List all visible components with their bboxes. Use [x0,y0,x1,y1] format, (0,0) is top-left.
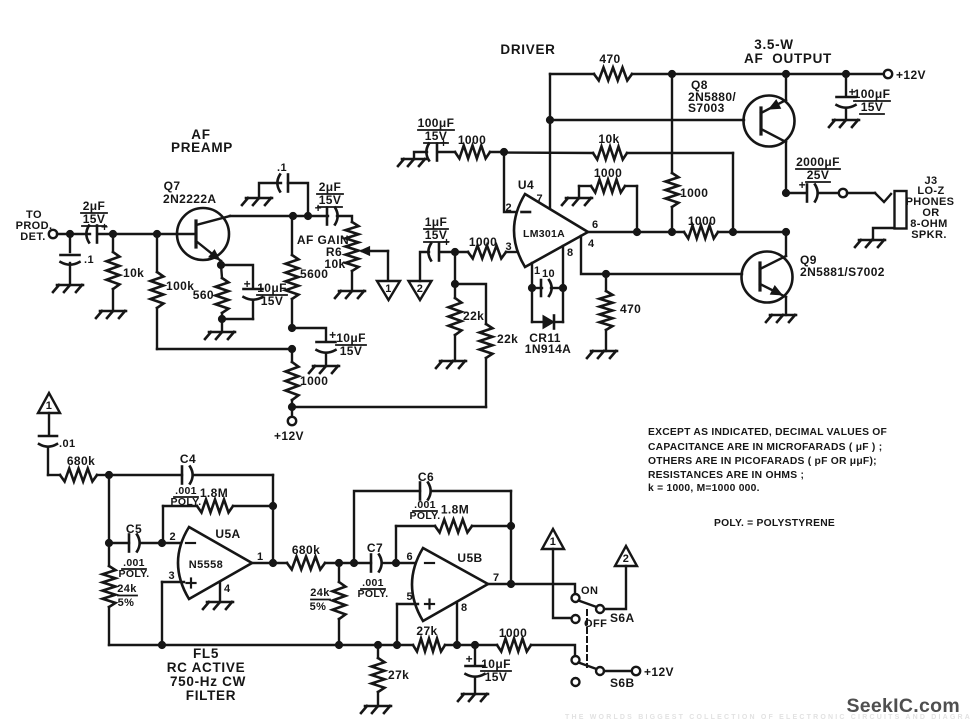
label 10uF 15V mid [336,331,366,358]
wire input [57,233,90,235]
capacitor C6 [420,483,511,585]
label 1000 decouple [300,374,328,388]
jack J3 plug [873,191,907,240]
svg-text:1.8M: 1.8M [441,503,469,517]
svg-text:C4: C4 [180,452,196,466]
resistor 5600 [286,216,299,328]
wire collector run [230,215,293,217]
wire output line [588,231,684,233]
svg-text:C7: C7 [367,541,383,555]
svg-text:.1: .1 [277,162,287,174]
capacitor 100uF driver [426,136,447,161]
wire gnd to 100uF [414,152,427,159]
svg-text:1N914A: 1N914A [525,342,571,356]
junction 470 Q9 [602,270,609,277]
capacitor .01 [39,436,60,475]
resistor 470 Q9 [600,274,613,351]
label C4 [180,452,196,466]
wire C4 left [109,474,182,476]
wire to jack [847,192,875,194]
capacitor 2uF input coupling [86,220,108,243]
svg-text:5: 5 [406,591,413,603]
svg-text:1000: 1000 [469,235,497,249]
junction +12V feed [288,403,295,410]
label 22k second [497,332,518,346]
svg-text:N5558: N5558 [189,559,223,571]
svg-text:8: 8 [461,602,468,614]
label +12V right [896,68,926,82]
wire C6 riser [354,491,420,563]
svg-text:POLY.: POLY. [358,588,389,600]
ground 100uF driver [398,159,426,166]
resistor 22k first [449,298,462,361]
terminal input [49,230,57,238]
svg-text:10μF: 10μF [336,331,366,345]
svg-text:2μF: 2μF [319,180,342,194]
svg-text:24k: 24k [117,583,137,595]
label C6 [418,470,434,484]
junction 24k2 rail [335,641,342,648]
svg-text:1.8M: 1.8M [200,486,228,500]
svg-text:+12V: +12V [644,665,674,679]
svg-text:PREAMP: PREAMP [171,140,233,155]
ground 27k vertical [361,706,391,713]
note poly text [714,518,835,529]
node input TO PROD DET label [16,209,53,243]
junction C5 left [105,539,112,546]
wire collector run 2 [293,215,328,217]
svg-text:3: 3 [168,570,175,582]
junction pin2 U5A [158,539,165,546]
label 1.8M second [441,503,469,517]
svg-text:U4: U4 [518,178,534,192]
svg-text:15V: 15V [319,193,342,207]
op-amp U4 LM301A [514,194,588,267]
label S6B [610,676,635,690]
svg-text:FILTER: FILTER [186,688,236,703]
svg-text:DRIVER: DRIVER [500,42,555,57]
label 5600 [300,267,328,281]
svg-text:2μF: 2μF [83,199,106,213]
wire 22k to +12V rail [292,406,486,408]
ground 1000 U4 [562,198,592,205]
wire pin7 vertical [549,74,551,209]
label ON [581,585,598,597]
svg-text:15V: 15V [83,212,106,226]
resistor 1000 decouple [286,349,299,407]
wire pin5 riser [396,604,398,645]
wire pin6 U5B [396,562,419,564]
label .001 POLY C5 [119,557,150,580]
svg-text:THE WORLDS BIGGEST COLLECTION: THE WORLDS BIGGEST COLLECTION OF ELECTRO… [565,714,970,721]
ground .1 collector [242,198,272,205]
ground jack [855,240,885,247]
ground 470 Q9 [587,351,617,358]
svg-text:15V: 15V [861,100,884,114]
label .01 [59,438,76,450]
ground U5A pin4 [203,582,233,609]
ground input bypass [53,285,83,292]
wire flag1 stem [48,413,50,434]
label 680k second [292,543,320,557]
terminal +12V right [884,70,892,78]
wire .1 to ground [259,183,281,198]
ground 10uF mid [309,366,339,373]
label CR11 [525,331,571,356]
label U5B [457,551,482,565]
svg-text:LM301A: LM301A [523,228,565,240]
wire pin8 riser [456,602,458,645]
svg-text:6: 6 [406,551,413,563]
capacitor 10uF mid [317,328,337,366]
svg-text:100k: 100k [166,279,194,293]
svg-text:8: 8 [567,247,574,259]
resistor 100k bias [151,234,164,349]
label 10 comp [542,268,555,280]
switch S6B [572,656,605,686]
label AF GAIN R6 10k [297,233,349,271]
junction 1.8M second right [507,522,514,529]
transistor Q7 [177,208,230,265]
op-amp U5A [178,527,252,599]
junction input A [66,230,73,237]
resistor 1000 mid vertical [666,74,679,232]
ground 10k input [96,311,126,318]
resistor 24k first [103,543,116,645]
svg-text:FL5: FL5 [193,646,219,661]
svg-text:.01: .01 [59,438,76,450]
svg-text:1: 1 [534,265,541,277]
svg-text:S6A: S6A [610,611,635,625]
wire rail to S6B [531,645,575,655]
svg-text:2000μF: 2000μF [796,155,840,169]
capacitor 10uF Q7 emitter [222,277,263,319]
svg-text:24k: 24k [310,587,330,599]
svg-text:6: 6 [592,219,599,231]
svg-text:POLY.: POLY. [119,568,150,580]
label FL5 block [167,646,246,703]
svg-text:+12V: +12V [274,429,304,443]
ground 100uF rail [829,120,859,127]
svg-text:+: + [244,277,251,291]
junction 560 bottom [218,315,225,322]
svg-text:+12V: +12V [896,68,926,82]
transistor Q9 [742,232,793,315]
svg-text:C5: C5 [126,522,142,536]
junction Q8 base line [546,116,553,123]
capacitor .1 input bypass [61,238,80,285]
watermark SeekIC [846,695,960,717]
resistor 680k second [287,557,339,570]
svg-text:1: 1 [257,551,264,563]
svg-text:1000: 1000 [680,186,708,200]
label pin2 U5A [169,531,176,543]
svg-text:2: 2 [169,531,176,543]
label 1000 U4 gnd [594,166,622,180]
svg-text:7: 7 [493,572,500,584]
label +12V mid [274,429,304,443]
capacitor 2000uF [786,178,839,202]
label pin7 U5B [493,572,500,584]
junction base node [153,230,160,237]
junction 1000gnd out [633,228,640,235]
svg-text:1: 1 [385,283,392,295]
svg-text:2: 2 [417,283,424,295]
resistor 1000 pin3 [468,246,506,259]
junction 1.8M right [269,502,276,509]
svg-text:100μF: 100μF [854,87,891,101]
svg-text:1000: 1000 [688,214,716,228]
svg-text:1μF: 1μF [425,215,448,229]
svg-text:10: 10 [542,268,555,280]
junction pin5 rail [393,641,400,648]
wire Q8 base [550,119,744,121]
junction 100k return [288,345,295,352]
junction 5600 top [289,212,296,219]
label 1000 pin3 [469,235,497,249]
svg-text:ON: ON [581,585,598,597]
svg-text:.1: .1 [84,254,94,266]
label OFF [584,618,607,630]
label 3.5-W AF OUTPUT [744,37,832,66]
svg-text:DET.: DET. [20,231,45,243]
junction pin6 U5B [392,559,399,566]
svg-text:AF OUTPUT: AF OUTPUT [744,51,832,66]
svg-text:15V: 15V [340,344,363,358]
wire output line 2 [718,231,786,233]
wire cap to R6 [337,216,352,222]
svg-text:27k: 27k [388,668,409,682]
capacitor C4 [182,467,273,564]
wire pin2 riser [504,152,518,212]
wire to 22k second [455,284,486,324]
label 560 [193,288,214,302]
label DRIVER [500,42,555,57]
junction 100uF rail [842,70,849,77]
label 10uF filter [481,657,511,684]
ground R6 [335,291,365,298]
flag 1 down R6 [377,281,400,300]
svg-text:2N5881/S7002: 2N5881/S7002 [800,265,885,279]
junction pin8 [559,284,566,291]
label 680k first [67,454,95,468]
svg-text:CAPACITANCE ARE IN MICROFARADS: CAPACITANCE ARE IN MICROFARADS ( μF ) ; [648,442,882,453]
switch S6A [572,594,605,623]
wire pin8 stem [562,246,564,288]
flag 2 down [409,281,432,300]
wire to 10uF mid [292,328,326,341]
svg-text:SPKR.: SPKR. [911,229,947,241]
wire .1 top riser [288,183,308,216]
wiper R6 arrow [360,247,388,281]
junction output cap [782,189,789,196]
label C7 [367,541,383,555]
label 470 Q9 [620,302,641,316]
label 100k [166,279,194,293]
svg-text:2: 2 [505,202,512,214]
junction C4 out [269,559,276,566]
wire +12V terminal [291,407,293,417]
svg-text:EXCEPT AS INDICATED, DECIMAL V: EXCEPT AS INDICATED, DECIMAL VALUES OF [648,427,887,438]
svg-text:27k: 27k [416,624,437,638]
svg-text:680k: 680k [292,543,320,557]
label J3 [906,175,955,241]
junction pin8 rail [453,641,460,648]
junction pin3 rail [158,641,165,648]
watermark faint line [565,714,970,721]
junction 470 rail [668,70,675,77]
label .001 POLY C6 [410,499,441,522]
svg-text:4: 4 [224,583,231,595]
svg-text:15V: 15V [485,670,508,684]
svg-text:RESISTANCES ARE IN OHMS ;: RESISTANCES ARE IN OHMS ; [648,470,804,481]
svg-text:4: 4 [588,238,595,250]
svg-text:OTHERS ARE IN PICOFARADS ( pF: OTHERS ARE IN PICOFARADS ( pF OR μμF); [648,456,877,467]
svg-text:3: 3 [505,241,512,253]
junction C6 branch [350,559,357,566]
wire pin3 U5A [162,581,184,583]
junction 1000 vert out [668,228,675,235]
wire pin1 stem [531,263,533,288]
ground 10uF filter [458,694,488,701]
label 1000 filter [499,626,527,640]
label 1000 output [688,214,716,228]
svg-text:470: 470 [620,302,641,316]
wire pin7 out [488,584,575,594]
label U5A [215,527,240,541]
label S6A [610,611,635,625]
svg-text:2: 2 [623,553,630,565]
svg-text:+: + [799,178,806,192]
junction filter in [105,471,112,478]
ground Q7 emitter [205,332,235,339]
wire flag1 switch stem [553,549,571,618]
label 1000 mid vertical [680,186,708,200]
svg-text:+: + [466,652,473,666]
junction 10uF rail [471,641,478,648]
ground 22k [436,361,466,368]
wire pin3 riser [161,582,163,645]
svg-text:U5A: U5A [215,527,240,541]
svg-text:POLY. = POLYSTYRENE: POLY. = POLYSTYRENE [714,518,835,529]
svg-text:10μF: 10μF [481,657,511,671]
transistor Q8 [744,74,795,193]
junction .1 feedback [304,212,311,219]
label Q7 [163,179,217,206]
label .1 input [84,254,94,266]
svg-text:25V: 25V [807,168,830,182]
wire S6B to +12V [604,670,632,672]
resistor 24k second [333,563,346,645]
label pin1 [534,265,541,277]
wire cap to 1000 [441,251,468,253]
resistor 10k input [107,234,120,311]
svg-text:22k: 22k [463,309,484,323]
svg-text:15V: 15V [425,129,448,143]
resistor 1000 output [684,226,718,239]
svg-text:750-Hz CW: 750-Hz CW [170,674,246,689]
label pin4 [588,238,595,250]
wire rail 2 [445,644,497,646]
flag 1 up switch [542,529,564,549]
op-amp U5B [412,548,488,621]
wire 100uF to 1000 [439,151,455,153]
terminal +12V mid [288,417,296,425]
svg-text:470: 470 [599,52,620,66]
wire +12V rail [632,73,884,75]
label 2uF 15V gain [317,180,343,207]
label 24k 5% first [117,583,137,609]
svg-text:10k: 10k [123,266,144,280]
wire 1000 to pin3 [506,251,518,253]
label 1000 driver in [458,133,486,147]
label pin3 U5A [168,570,175,582]
label pin8 U5B [461,602,468,614]
label Q9 [800,253,885,279]
wire flag2 to cap [420,252,429,281]
svg-text:10μF: 10μF [257,281,287,295]
svg-text:3.5-W: 3.5-W [754,37,794,52]
capacitor 10 comp [532,280,563,296]
resistor 680k first [60,469,109,482]
label pin8 [567,247,574,259]
junction 22k node [451,280,458,287]
resistor 10k feedback [504,147,733,233]
svg-text:1: 1 [46,400,53,412]
label 1uF 15V [424,215,448,242]
label U4 [518,178,534,192]
wire input to base [99,233,177,235]
terminal +12V switch [632,667,640,675]
svg-text:5%: 5% [118,597,135,609]
capacitor 10uF filter [466,645,485,694]
resistor 1000 driver in [455,146,490,159]
label .1 collector [277,162,287,174]
wire gang dashed [586,610,588,667]
svg-text:560: 560 [193,288,214,302]
junction 24k second top [335,559,342,566]
label 24k 5% second [310,587,331,613]
resistor 560 [216,265,229,319]
diode CR11 [532,288,563,329]
capacitor 2uF AF gain [315,201,338,225]
label 27k horizontal [416,624,437,638]
wire emitter to cap [221,265,253,288]
junction Q9 collector [782,228,789,235]
label pin5 U5B [406,591,413,603]
junction Q8 emitter rail [782,70,789,77]
wire 560 to ground [221,319,223,332]
capacitor C7 [371,555,395,572]
wire left column [108,475,110,543]
label +12V switch [644,665,674,679]
wire pin5 U5B [397,603,418,605]
svg-text:15V: 15V [261,294,284,308]
svg-text:1000: 1000 [458,133,486,147]
label 10k input [123,266,144,280]
junction pin7 C6 [507,580,514,587]
svg-text:S7003: S7003 [688,101,725,115]
svg-text:1000: 1000 [300,374,328,388]
capacitor 100uF rail [837,74,857,120]
label .001 POLY C7 [358,577,389,600]
capacitor C5 [109,535,162,552]
junction pin2 node [500,148,507,155]
resistor 1.8M first [163,500,273,544]
svg-text:1000: 1000 [594,166,622,180]
svg-text:2N2222A: 2N2222A [163,192,217,206]
svg-text:k = 1000, M=1000 000.: k = 1000, M=1000 000. [648,483,760,494]
